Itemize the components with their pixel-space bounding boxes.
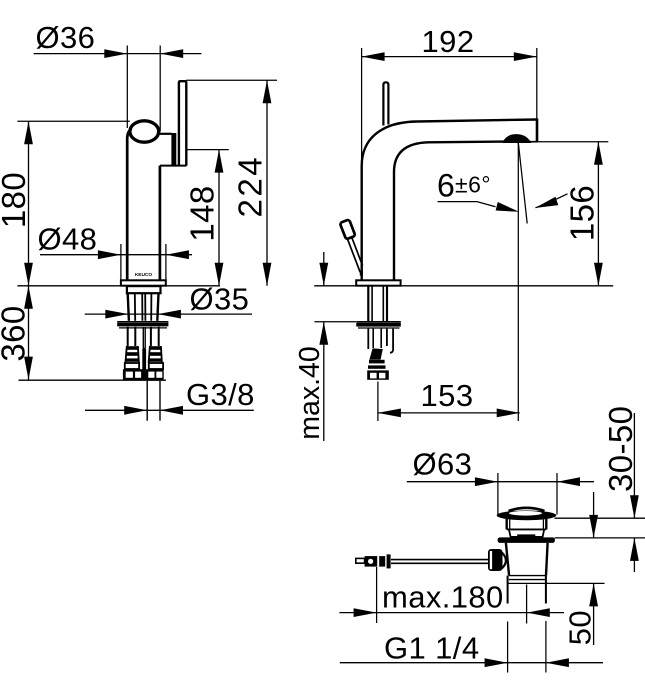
dimension max.180 [339, 567, 564, 623]
spout outer profile [362, 120, 537, 281]
base flange front [121, 280, 166, 285]
spout inner profile [394, 142, 505, 281]
dimension 360 [0, 286, 33, 380]
stem black tab [517, 534, 535, 537]
svg-text:30-50: 30-50 [602, 406, 639, 492]
plug dome cap [509, 508, 545, 511]
svg-text:Ø36: Ø36 [36, 20, 96, 55]
svg-text:192: 192 [422, 24, 475, 59]
hose end fitting side [367, 370, 389, 379]
angle annotation 6±6° [437, 168, 568, 217]
svg-text:6: 6 [437, 168, 455, 204]
svg-text:Ø63: Ø63 [413, 447, 473, 482]
svg-text:G1 1/4: G1 1/4 [384, 631, 479, 666]
pull rod [356, 554, 489, 568]
flange bottom reference line [555, 517, 645, 519]
flange inner highlight [509, 511, 542, 516]
svg-text:Ø48: Ø48 [38, 222, 98, 257]
lever joint connector line [159, 133, 172, 135]
dimension G3/8 [85, 377, 255, 415]
deck reference line side [314, 285, 613, 287]
threaded shank front [128, 293, 159, 320]
pin rod on spout top [383, 82, 388, 125]
dimension 156 [537, 142, 609, 286]
dimension Ø35 [85, 282, 252, 319]
faucet body right edge front [159, 166, 162, 281]
left hose end fitting [123, 369, 143, 380]
lever pivot dot [360, 271, 363, 275]
dimension 50 [563, 492, 599, 645]
clamping ring [498, 537, 555, 543]
deck reference line front [17, 285, 220, 287]
dimension 192 [362, 24, 537, 162]
lever arm side [347, 237, 362, 272]
shank collar below deck [127, 286, 161, 293]
svg-text:180: 180 [0, 172, 32, 228]
dimension 153 [378, 378, 520, 421]
left supply hose [125, 327, 139, 369]
svg-text:G3/8: G3/8 [186, 377, 255, 412]
threaded shank side [368, 286, 387, 321]
dimension Ø36 [34, 20, 202, 132]
handle cylinder front [179, 81, 186, 165]
drain centerline [526, 585, 528, 624]
svg-text:153: 153 [421, 378, 474, 413]
hose and rod below washer side [368, 329, 393, 353]
tailpiece extension lines [507, 622, 509, 673]
ball joint housing [488, 549, 506, 571]
svg-text:Ø35: Ø35 [190, 282, 250, 317]
svg-text:max.40: max.40 [294, 346, 326, 439]
dimension Ø63 [407, 447, 594, 515]
spout bottom tip line [529, 141, 538, 143]
svg-text:KEUCO: KEUCO [135, 272, 153, 278]
svg-text:±6°: ±6° [455, 172, 491, 198]
right hose end fitting [146, 369, 164, 380]
hose bottom reference line [19, 379, 167, 381]
horseshoe washer front [117, 322, 168, 328]
aerator outlet hump [504, 135, 531, 142]
svg-text:148: 148 [184, 185, 221, 241]
base flange side [356, 280, 400, 285]
faucet body front outline [127, 129, 131, 281]
dimension 180 [0, 121, 130, 285]
handle bottom line [160, 165, 187, 167]
valve stem [507, 519, 547, 530]
dimension G1 1/4 [340, 631, 603, 668]
svg-text:max.180: max.180 [382, 580, 504, 615]
horseshoe washer side [356, 322, 401, 328]
hose bend black side [369, 348, 382, 359]
dimension 30-50 [602, 406, 639, 572]
center threaded rod [142, 327, 144, 348]
svg-text:360: 360 [0, 305, 32, 361]
right supply hose [149, 327, 164, 369]
plug flange lens [497, 511, 557, 521]
svg-text:156: 156 [564, 185, 601, 241]
spout end face [536, 119, 539, 143]
cartridge cap ellipse [130, 121, 159, 142]
water jet vertical line [517, 143, 519, 422]
dimension 224 [186, 80, 277, 285]
water jet angled line [518, 143, 527, 224]
G3/8 nipple lines [146, 381, 148, 421]
lever knob side [340, 219, 356, 239]
stem taper section [509, 529, 544, 537]
dimension Ø48 [38, 222, 193, 281]
dimension max.40 [294, 252, 356, 441]
svg-text:50: 50 [563, 610, 598, 645]
drain body tube [506, 543, 605, 604]
ring top reference line [555, 537, 645, 539]
svg-text:224: 224 [232, 155, 269, 218]
dimension 148 [184, 150, 229, 286]
lever bar black (edge-on) [171, 133, 176, 166]
